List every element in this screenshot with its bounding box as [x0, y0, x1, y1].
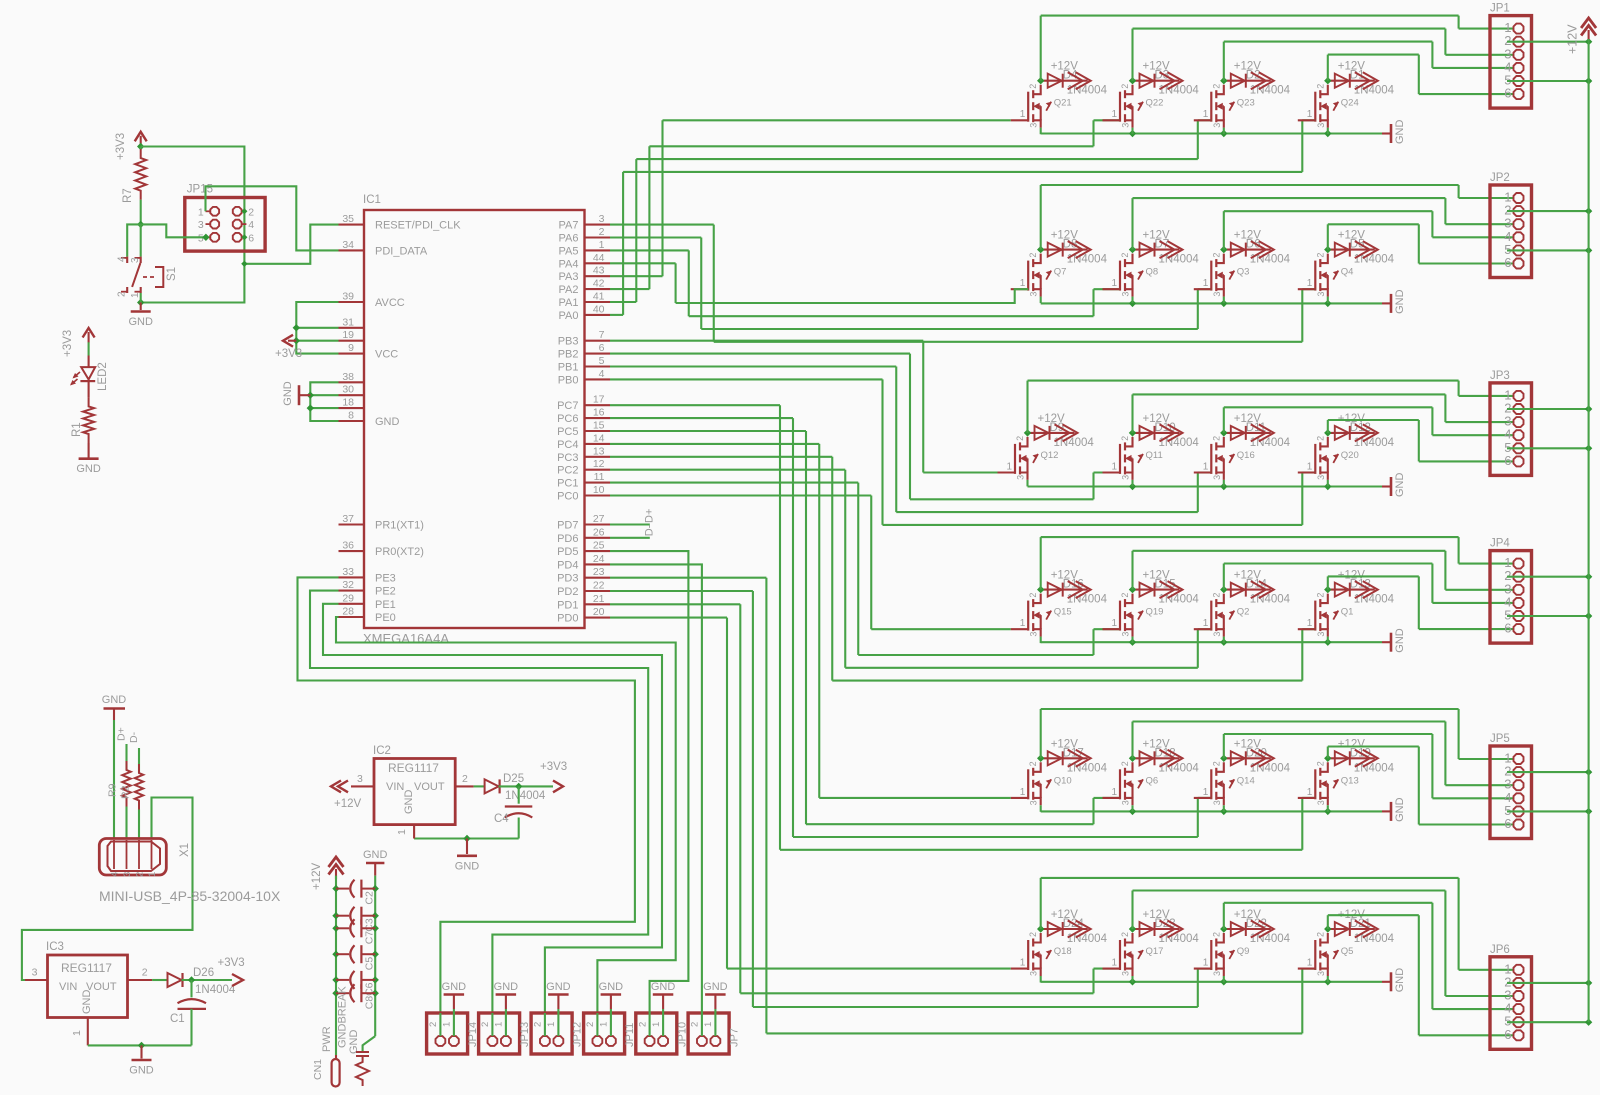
svg-text:AVCC: AVCC — [375, 297, 405, 309]
svg-text:+3V3: +3V3 — [540, 761, 567, 773]
svg-text:PA3: PA3 — [559, 271, 579, 283]
svg-text:3: 3 — [1121, 971, 1131, 976]
svg-text:2: 2 — [248, 206, 254, 218]
svg-text:2: 2 — [1028, 84, 1038, 89]
svg-text:15: 15 — [593, 420, 605, 432]
svg-text:14: 14 — [593, 432, 605, 444]
svg-text:25: 25 — [593, 540, 605, 552]
svg-text:3: 3 — [1121, 475, 1131, 480]
svg-text:6: 6 — [1504, 453, 1511, 468]
svg-text:2: 2 — [428, 1022, 439, 1027]
svg-text:39: 39 — [342, 291, 354, 303]
svg-text:PA1: PA1 — [559, 297, 579, 309]
svg-text:2: 2 — [142, 967, 148, 979]
svg-text:2: 2 — [1315, 436, 1325, 441]
svg-text:REG1117: REG1117 — [388, 761, 439, 775]
svg-text:3: 3 — [1212, 123, 1222, 128]
svg-text:PC4: PC4 — [557, 439, 578, 451]
svg-text:3: 3 — [1029, 123, 1039, 128]
svg-text:JP7: JP7 — [729, 1028, 741, 1047]
svg-text:26: 26 — [593, 526, 605, 538]
svg-text:GND: GND — [403, 790, 415, 815]
svg-text:2: 2 — [1120, 436, 1130, 441]
svg-text:3: 3 — [198, 219, 204, 231]
svg-text:24: 24 — [593, 553, 605, 565]
svg-text:3: 3 — [1212, 475, 1222, 480]
svg-text:22: 22 — [593, 580, 605, 592]
svg-text:PD5: PD5 — [557, 546, 578, 558]
svg-text:PWR: PWR — [321, 1026, 333, 1052]
svg-text:38: 38 — [342, 371, 354, 383]
svg-text:2: 2 — [1120, 84, 1130, 89]
svg-text:2: 2 — [1211, 253, 1221, 258]
svg-text:1: 1 — [1007, 461, 1013, 472]
svg-text:2: 2 — [1315, 253, 1325, 258]
svg-text:1: 1 — [1307, 787, 1313, 798]
svg-text:GNDBREAK: GNDBREAK — [337, 986, 349, 1048]
svg-text:13: 13 — [593, 445, 605, 457]
svg-text:+12V: +12V — [1566, 24, 1580, 54]
svg-text:+3V3: +3V3 — [62, 330, 74, 357]
svg-text:PB0: PB0 — [558, 374, 579, 386]
svg-text:27: 27 — [593, 513, 605, 525]
svg-text:PD3: PD3 — [557, 573, 578, 585]
svg-text:REG1117: REG1117 — [61, 961, 112, 975]
svg-text:1: 1 — [1307, 618, 1313, 629]
svg-text:IC2: IC2 — [373, 745, 391, 757]
svg-text:PA6: PA6 — [559, 233, 579, 245]
svg-text:1: 1 — [599, 239, 605, 251]
svg-text:GND: GND — [455, 860, 480, 872]
svg-text:PD4: PD4 — [557, 559, 578, 571]
svg-text:LED2: LED2 — [97, 362, 109, 391]
svg-text:2: 2 — [1211, 761, 1221, 766]
svg-text:Q15: Q15 — [1054, 607, 1072, 618]
svg-text:1: 1 — [1112, 109, 1118, 120]
svg-text:2: 2 — [1028, 932, 1038, 937]
svg-text:41: 41 — [593, 291, 605, 303]
svg-text:GND: GND — [703, 981, 728, 993]
svg-text:+12V: +12V — [311, 862, 323, 890]
svg-text:Q4: Q4 — [1341, 267, 1354, 278]
svg-text:RESET/PDI_CLK: RESET/PDI_CLK — [375, 220, 461, 232]
svg-text:JP2: JP2 — [1490, 172, 1510, 184]
svg-text:1: 1 — [651, 1022, 662, 1027]
svg-text:Q23: Q23 — [1237, 98, 1255, 109]
svg-text:PC0: PC0 — [557, 491, 578, 503]
svg-text:3: 3 — [122, 872, 133, 877]
svg-text:2: 2 — [1120, 761, 1130, 766]
svg-text:1: 1 — [1203, 958, 1209, 969]
svg-text:GND: GND — [442, 981, 467, 993]
svg-text:11: 11 — [594, 471, 605, 483]
svg-text:1: 1 — [1020, 278, 1026, 289]
svg-text:3: 3 — [1212, 292, 1222, 297]
svg-text:PB1: PB1 — [558, 362, 579, 374]
svg-text:6: 6 — [248, 232, 254, 244]
svg-text:GND: GND — [1394, 628, 1406, 653]
svg-text:D25: D25 — [503, 773, 524, 785]
svg-text:2: 2 — [1211, 593, 1221, 598]
svg-text:PD0: PD0 — [557, 613, 578, 625]
svg-text:D-: D- — [644, 524, 656, 536]
svg-text:1: 1 — [1307, 109, 1313, 120]
svg-text:D26: D26 — [193, 967, 214, 979]
svg-text:GND: GND — [76, 463, 101, 475]
svg-text:4: 4 — [599, 368, 605, 380]
svg-text:2: 2 — [1120, 253, 1130, 258]
svg-text:1: 1 — [396, 829, 408, 835]
svg-text:GND: GND — [363, 849, 388, 861]
svg-text:2: 2 — [585, 1022, 596, 1027]
svg-text:8: 8 — [348, 410, 354, 422]
svg-text:1: 1 — [1112, 461, 1118, 472]
svg-text:1: 1 — [130, 292, 141, 298]
svg-text:6: 6 — [1504, 816, 1511, 831]
svg-text:+3V3: +3V3 — [115, 133, 127, 160]
svg-text:1: 1 — [147, 872, 158, 877]
svg-text:GND: GND — [129, 1065, 154, 1077]
svg-text:4: 4 — [110, 872, 121, 877]
svg-text:1: 1 — [1020, 618, 1026, 629]
svg-text:3: 3 — [1121, 123, 1131, 128]
svg-text:2: 2 — [117, 291, 128, 297]
svg-text:GND: GND — [494, 981, 519, 993]
svg-text:3: 3 — [32, 967, 38, 979]
svg-text:2: 2 — [1120, 593, 1130, 598]
svg-text:44: 44 — [593, 252, 605, 264]
svg-text:2: 2 — [1028, 593, 1038, 598]
svg-text:CN1: CN1 — [312, 1059, 324, 1080]
svg-text:+12V: +12V — [334, 798, 362, 810]
svg-text:37: 37 — [342, 513, 354, 525]
svg-text:2: 2 — [1315, 761, 1325, 766]
svg-text:Q13: Q13 — [1341, 775, 1359, 786]
svg-text:PA2: PA2 — [559, 284, 579, 296]
svg-text:1: 1 — [1307, 461, 1313, 472]
svg-text:2: 2 — [1028, 253, 1038, 258]
svg-text:PA4: PA4 — [559, 258, 579, 270]
svg-text:C2: C2 — [364, 891, 376, 905]
svg-text:32: 32 — [342, 579, 354, 591]
svg-text:7: 7 — [599, 329, 605, 341]
svg-text:D-: D- — [128, 731, 140, 743]
svg-text:C4: C4 — [494, 813, 509, 825]
svg-text:JP4: JP4 — [1490, 538, 1510, 550]
svg-text:1: 1 — [1307, 958, 1313, 969]
svg-text:PC2: PC2 — [557, 465, 578, 477]
svg-text:R7: R7 — [122, 188, 134, 203]
svg-text:1: 1 — [1307, 278, 1313, 289]
svg-text:3: 3 — [1316, 632, 1326, 637]
svg-text:R9: R9 — [107, 783, 119, 797]
svg-text:GND: GND — [282, 381, 294, 406]
svg-text:C7: C7 — [364, 931, 376, 945]
svg-text:GND: GND — [1394, 289, 1406, 314]
svg-text:VIN: VIN — [386, 781, 404, 793]
svg-text:3: 3 — [1029, 971, 1039, 976]
svg-text:PB3: PB3 — [558, 336, 579, 348]
svg-text:2: 2 — [1028, 761, 1038, 766]
svg-text:Q21: Q21 — [1054, 98, 1072, 109]
svg-text:D+: D+ — [116, 727, 128, 741]
svg-text:PA5: PA5 — [559, 245, 579, 257]
svg-text:1: 1 — [1020, 958, 1026, 969]
svg-text:17: 17 — [593, 394, 605, 406]
svg-text:2: 2 — [599, 226, 605, 238]
svg-text:2: 2 — [480, 1022, 491, 1027]
svg-text:1: 1 — [198, 206, 204, 218]
svg-text:GND: GND — [1394, 968, 1406, 993]
svg-text:PC7: PC7 — [557, 400, 578, 412]
svg-text:Q19: Q19 — [1146, 607, 1164, 618]
svg-text:1N4004: 1N4004 — [505, 790, 546, 802]
svg-text:2: 2 — [135, 872, 146, 877]
svg-text:PB2: PB2 — [558, 349, 579, 361]
svg-text:Q2: Q2 — [1237, 607, 1250, 618]
svg-text:PC3: PC3 — [557, 452, 578, 464]
svg-text:Q6: Q6 — [1146, 775, 1159, 786]
svg-text:2: 2 — [462, 773, 468, 785]
svg-text:3: 3 — [1212, 800, 1222, 805]
svg-text:1: 1 — [703, 1022, 714, 1027]
svg-text:3: 3 — [357, 773, 363, 785]
svg-text:PD1: PD1 — [557, 599, 578, 611]
svg-text:PA0: PA0 — [559, 310, 579, 322]
svg-text:PD6: PD6 — [557, 533, 578, 545]
svg-text:3: 3 — [1029, 632, 1039, 637]
svg-text:+3V3: +3V3 — [218, 957, 245, 969]
svg-text:PDI_DATA: PDI_DATA — [375, 245, 428, 257]
svg-text:PD2: PD2 — [557, 586, 578, 598]
svg-text:21: 21 — [593, 593, 605, 605]
svg-text:PR0(XT2): PR0(XT2) — [375, 546, 424, 558]
svg-text:6: 6 — [599, 342, 605, 354]
svg-text:2: 2 — [690, 1022, 701, 1027]
svg-text:2: 2 — [1315, 932, 1325, 937]
svg-text:2: 2 — [1211, 436, 1221, 441]
svg-text:33: 33 — [342, 566, 354, 578]
svg-text:1: 1 — [1020, 787, 1026, 798]
svg-text:Q20: Q20 — [1341, 450, 1359, 461]
svg-text:MINI-USB_4P-85-32004-10X: MINI-USB_4P-85-32004-10X — [99, 888, 281, 904]
svg-text:C1: C1 — [170, 1013, 185, 1025]
svg-text:VCC: VCC — [375, 349, 398, 361]
svg-text:3: 3 — [1029, 292, 1039, 297]
svg-text:1: 1 — [1112, 958, 1118, 969]
svg-text:PC1: PC1 — [557, 478, 578, 490]
svg-text:PE2: PE2 — [375, 586, 396, 598]
svg-text:19: 19 — [342, 329, 354, 341]
svg-text:C5: C5 — [364, 957, 376, 971]
svg-text:IC3: IC3 — [46, 941, 64, 953]
svg-text:28: 28 — [342, 606, 354, 618]
svg-text:1: 1 — [1203, 461, 1209, 472]
svg-text:PE1: PE1 — [375, 599, 396, 611]
svg-text:1: 1 — [1112, 278, 1118, 289]
svg-text:1: 1 — [1203, 278, 1209, 289]
svg-text:2: 2 — [1211, 932, 1221, 937]
svg-text:Q22: Q22 — [1146, 98, 1164, 109]
svg-text:42: 42 — [593, 278, 605, 290]
svg-text:2: 2 — [1315, 593, 1325, 598]
svg-text:16: 16 — [593, 407, 605, 419]
svg-text:R1: R1 — [71, 422, 83, 437]
svg-text:3: 3 — [130, 257, 141, 263]
svg-text:JP12: JP12 — [572, 1022, 584, 1047]
svg-text:20: 20 — [593, 606, 605, 618]
svg-text:GND: GND — [1394, 797, 1406, 822]
svg-text:3: 3 — [1016, 475, 1026, 480]
svg-text:12: 12 — [593, 458, 605, 470]
svg-text:2: 2 — [533, 1022, 544, 1027]
svg-text:3: 3 — [599, 213, 605, 225]
svg-text:6: 6 — [1504, 255, 1511, 270]
svg-text:S1: S1 — [166, 267, 178, 281]
svg-text:Q1: Q1 — [1341, 607, 1354, 618]
svg-text:1: 1 — [442, 1022, 453, 1027]
svg-text:3: 3 — [1121, 800, 1131, 805]
svg-text:2: 2 — [1315, 84, 1325, 89]
svg-text:3: 3 — [1029, 800, 1039, 805]
svg-text:2: 2 — [1015, 436, 1025, 441]
svg-text:GND: GND — [102, 694, 127, 706]
svg-text:4: 4 — [117, 256, 128, 262]
svg-text:C8: C8 — [364, 996, 376, 1010]
svg-text:GND: GND — [651, 981, 676, 993]
svg-text:Q10: Q10 — [1054, 775, 1072, 786]
svg-text:2: 2 — [1211, 84, 1221, 89]
svg-text:3: 3 — [1212, 971, 1222, 976]
svg-text:PD7: PD7 — [557, 520, 578, 532]
svg-text:3: 3 — [1121, 292, 1131, 297]
svg-text:PC6: PC6 — [557, 413, 578, 425]
svg-text:JP13: JP13 — [519, 1022, 531, 1047]
svg-text:VIN: VIN — [59, 981, 77, 993]
svg-text:3: 3 — [1316, 800, 1326, 805]
svg-text:JP6: JP6 — [1490, 944, 1510, 956]
svg-text:GND: GND — [348, 1030, 360, 1055]
svg-text:1: 1 — [599, 1022, 610, 1027]
svg-text:35: 35 — [342, 213, 354, 225]
svg-text:Q18: Q18 — [1054, 946, 1072, 957]
svg-text:PE0: PE0 — [375, 612, 396, 624]
svg-text:34: 34 — [342, 239, 354, 251]
svg-text:40: 40 — [593, 303, 605, 315]
svg-text:31: 31 — [342, 316, 354, 328]
svg-text:3: 3 — [1316, 292, 1326, 297]
svg-text:Q5: Q5 — [1341, 946, 1354, 957]
svg-text:5: 5 — [599, 355, 605, 367]
svg-text:6: 6 — [1504, 86, 1511, 101]
svg-text:1: 1 — [1112, 618, 1118, 629]
svg-text:3: 3 — [1316, 475, 1326, 480]
svg-text:43: 43 — [593, 265, 605, 277]
svg-text:3: 3 — [1316, 971, 1326, 976]
svg-text:3: 3 — [1121, 632, 1131, 637]
svg-text:JP5: JP5 — [1490, 733, 1510, 745]
svg-text:1: 1 — [1203, 109, 1209, 120]
svg-text:4: 4 — [248, 219, 254, 231]
svg-text:XMEGA16A4A: XMEGA16A4A — [363, 631, 449, 646]
svg-text:29: 29 — [342, 592, 354, 604]
svg-text:JP1: JP1 — [1490, 3, 1510, 15]
svg-text:1: 1 — [1203, 787, 1209, 798]
svg-text:30: 30 — [342, 384, 354, 396]
svg-text:Q9: Q9 — [1237, 946, 1250, 957]
svg-text:GND: GND — [1394, 473, 1406, 498]
svg-text:X1: X1 — [179, 843, 191, 857]
svg-text:1: 1 — [71, 1030, 83, 1036]
svg-text:PR1(XT1): PR1(XT1) — [375, 520, 424, 532]
svg-text:VOUT: VOUT — [414, 781, 445, 793]
svg-text:2: 2 — [637, 1022, 648, 1027]
svg-text:Q24: Q24 — [1341, 98, 1359, 109]
svg-text:GND: GND — [599, 981, 624, 993]
svg-text:1: 1 — [494, 1022, 505, 1027]
svg-text:2: 2 — [1120, 932, 1130, 937]
svg-text:10: 10 — [593, 484, 605, 496]
svg-text:PE3: PE3 — [375, 572, 396, 584]
svg-text:3: 3 — [1212, 632, 1222, 637]
svg-text:GND: GND — [1394, 120, 1406, 145]
svg-text:JP3: JP3 — [1490, 370, 1510, 382]
svg-text:GND: GND — [128, 316, 153, 328]
svg-text:1: 1 — [1112, 787, 1118, 798]
svg-text:Q8: Q8 — [1146, 267, 1159, 278]
svg-text:Q7: Q7 — [1054, 267, 1067, 278]
svg-text:6: 6 — [1504, 1027, 1511, 1042]
svg-text:PC5: PC5 — [557, 426, 578, 438]
svg-text:9: 9 — [348, 342, 354, 354]
svg-text:PA7: PA7 — [559, 220, 579, 232]
svg-text:Q11: Q11 — [1146, 450, 1163, 461]
svg-text:1: 1 — [546, 1022, 557, 1027]
svg-text:6: 6 — [1504, 621, 1511, 636]
svg-text:Q14: Q14 — [1237, 775, 1255, 786]
svg-text:18: 18 — [342, 397, 354, 409]
svg-text:GND: GND — [81, 990, 93, 1015]
svg-text:GND: GND — [375, 416, 400, 428]
svg-text:3: 3 — [1316, 123, 1326, 128]
svg-text:R2: R2 — [120, 785, 132, 799]
svg-text:Q17: Q17 — [1146, 946, 1164, 957]
svg-text:23: 23 — [593, 566, 605, 578]
svg-text:36: 36 — [342, 540, 354, 552]
svg-text:Q16: Q16 — [1237, 450, 1255, 461]
svg-text:IC1: IC1 — [363, 194, 381, 206]
svg-text:+3V3: +3V3 — [275, 348, 302, 360]
svg-text:1: 1 — [1020, 109, 1026, 120]
svg-text:Q12: Q12 — [1041, 450, 1059, 461]
svg-text:GND: GND — [546, 981, 571, 993]
svg-text:1: 1 — [1203, 618, 1209, 629]
svg-text:1N4004: 1N4004 — [195, 984, 236, 996]
svg-text:D+: D+ — [644, 509, 656, 523]
svg-text:Q3: Q3 — [1237, 267, 1250, 278]
